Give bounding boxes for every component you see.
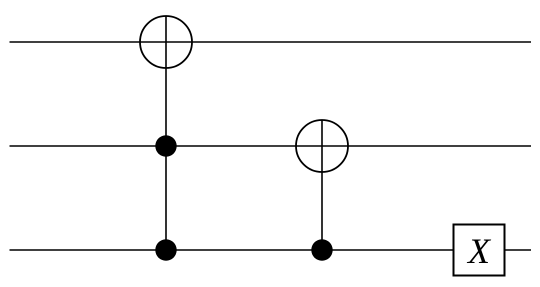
wire q1 (middle qubit line) xyxy=(10,145,532,147)
CNOT target circle (oplus) on q1 xyxy=(296,120,348,172)
wire q2 (bottom qubit line) xyxy=(10,249,532,251)
Toffoli control dot on q2 xyxy=(155,239,176,260)
X gate box on q2 xyxy=(454,225,505,276)
Toffoli control dot on q1 xyxy=(155,135,176,156)
Toffoli CCX target circle (oplus) on q0 xyxy=(140,16,192,68)
wire: Toffoli vertical connector at x=166 xyxy=(165,16,167,250)
wire q0 (top qubit line) xyxy=(10,41,532,43)
wire: CNOT vertical connector at x=322 xyxy=(321,121,323,251)
svg-text:X: X xyxy=(466,231,492,271)
CNOT control dot on q2 xyxy=(311,239,332,260)
